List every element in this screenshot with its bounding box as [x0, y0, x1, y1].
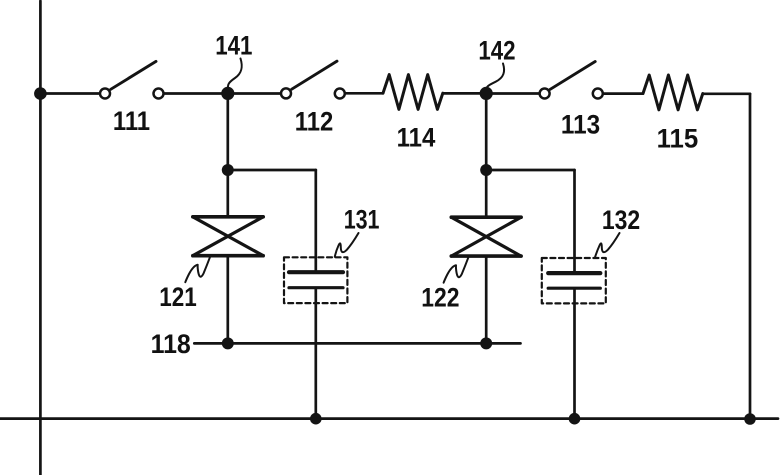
leader 142: [486, 64, 504, 90]
wire left bus to switch 111: [40, 92, 98, 95]
node bottom bus cap132: [569, 413, 581, 425]
element 122 (variable element bowtie): [451, 217, 521, 256]
svg-text:131: 131: [344, 205, 380, 235]
svg-text:111: 111: [113, 106, 150, 136]
node 142: [480, 87, 493, 100]
wire junction to element 121: [226, 170, 229, 217]
wire capacitor 132 bottom lead to bottom bus: [573, 289, 576, 419]
svg-text:141: 141: [215, 31, 252, 61]
node junction 141 branch: [222, 164, 234, 176]
capacitor C132: [542, 258, 606, 303]
svg-text:142: 142: [478, 36, 515, 66]
wire junction to element 122: [485, 170, 488, 217]
wire resistor 114 to node 142: [443, 92, 482, 95]
element 121 (variable element bowtie): [193, 217, 263, 256]
node 141: [221, 87, 234, 100]
svg-text:118: 118: [151, 329, 191, 359]
svg-text:113: 113: [561, 110, 600, 140]
wire element 122 to node line 118: [485, 256, 488, 343]
wire switch 112 to resistor 114: [346, 92, 383, 95]
leader 131: [335, 233, 359, 257]
left bus wire: [39, 1, 42, 475]
wire junction to capacitor 132 branch: [486, 169, 574, 172]
node line 118 wire: [194, 342, 520, 345]
wire node 141 down to junction: [226, 94, 229, 171]
svg-text:121: 121: [159, 282, 197, 312]
node bottom bus right drop: [744, 413, 756, 425]
resistor R115: [643, 75, 703, 110]
wire resistor 115 to right corner: [703, 92, 750, 95]
leader 122: [444, 258, 469, 283]
svg-text:132: 132: [602, 205, 640, 235]
wire node 142 down to junction: [485, 94, 488, 171]
node 118 right: [480, 337, 492, 349]
svg-text:115: 115: [657, 123, 699, 153]
capacitor C131: [284, 257, 347, 303]
leader 132: [595, 233, 620, 257]
wire switch 111 to node 141: [165, 92, 225, 95]
svg-text:122: 122: [421, 283, 459, 313]
leader 141: [228, 59, 242, 89]
node 118 left: [222, 337, 234, 349]
switch 111: [100, 61, 164, 98]
node on left bus: [34, 87, 47, 100]
switch 113: [540, 62, 603, 99]
wire right drop to bottom bus: [749, 94, 752, 419]
wire capacitor 132 top lead: [573, 170, 576, 273]
wire junction to capacitor 131 branch: [228, 169, 316, 172]
leader 121: [185, 257, 210, 282]
wire switch 113 to resistor 115: [604, 92, 643, 95]
svg-text:114: 114: [397, 123, 436, 153]
node bottom bus cap131: [310, 413, 322, 425]
wire node 142 to switch 113: [490, 92, 539, 95]
svg-text:112: 112: [295, 106, 334, 136]
bottom bus wire: [0, 417, 778, 420]
wire node 141 to switch 112: [228, 92, 280, 95]
resistor R114: [383, 75, 443, 110]
wire capacitor 131 top lead: [314, 170, 317, 272]
wire capacitor 131 bottom lead to bottom bus: [314, 288, 317, 419]
node junction 142 branch: [480, 164, 492, 176]
switch 112: [281, 61, 345, 98]
wire element 121 to node line 118: [226, 256, 229, 344]
